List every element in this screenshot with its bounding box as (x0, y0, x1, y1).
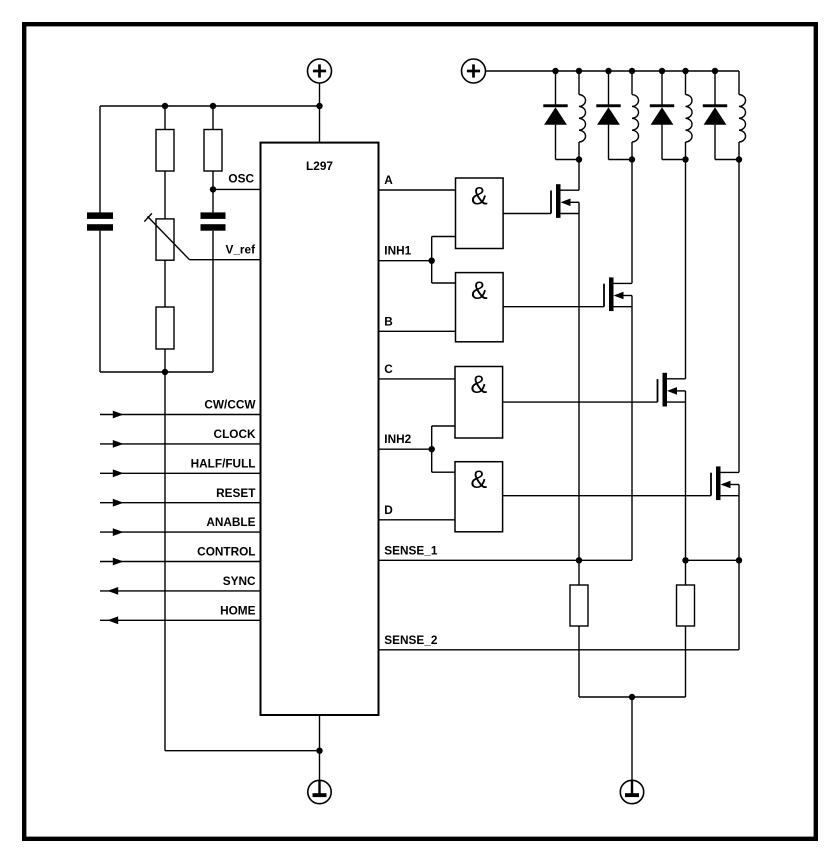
svg-text:A: A (384, 173, 393, 187)
node bus junction diode D3 (659, 68, 665, 74)
label V_ref (225, 243, 255, 257)
arrow output SYNC (108, 587, 119, 595)
wire input HOME (100, 619, 261, 621)
node bus junction winding L3 (682, 68, 688, 74)
transistor Q3 (658, 373, 686, 407)
label OSC (228, 172, 254, 186)
svg-text:ANABLE: ANABLE (206, 515, 255, 529)
diode D2 (596, 71, 632, 160)
wire sense resistors bottom (579, 696, 686, 698)
node bus junction diode D1 (552, 68, 558, 74)
wire Q2 source column (631, 296, 633, 561)
svg-text:D: D (384, 503, 393, 517)
node Q4 source / sense segment junction (736, 557, 742, 563)
label CLOCK (214, 427, 256, 441)
label ANABLE (206, 515, 255, 529)
wire R2 to OSC node (212, 171, 214, 212)
AND gate U4 symbol (470, 371, 487, 399)
label HALF/FULL (191, 456, 256, 470)
AND gate U3 body (456, 273, 504, 342)
svg-text:CW/CCW: CW/CCW (204, 398, 256, 412)
diode D3 (650, 71, 686, 160)
svg-text:&: & (470, 371, 487, 399)
svg-text:&: & (470, 466, 487, 494)
wire sense ground stem (631, 697, 633, 780)
wire pin A (379, 189, 456, 191)
node junction winding L1 bottom (576, 156, 582, 162)
resistor R2 (204, 130, 222, 172)
svg-text:INH2: INH2 (384, 432, 411, 446)
node junction winding L3 bottom (682, 156, 688, 162)
node bus junction winding L1 (576, 68, 582, 74)
node junction sense ground (629, 694, 635, 700)
inductor motor winding L1 (579, 71, 586, 160)
node junction ground stem (316, 748, 322, 754)
wire input HALF/FULL (100, 472, 261, 474)
wire pin INH1 (379, 260, 432, 262)
svg-text:C: C (384, 362, 393, 376)
svg-text:B: B (384, 314, 393, 328)
node junction winding L2 bottom (629, 156, 635, 162)
arrow input ANABLE (113, 528, 124, 536)
node junction V+ / L297 (316, 103, 322, 109)
inductor motor winding L3 (686, 71, 693, 160)
wire pin SENSE_2 (379, 649, 739, 651)
AND gate U4 body (455, 367, 503, 439)
wire Q1 drain column (578, 160, 580, 191)
wire R1 top lead (164, 106, 166, 130)
svg-text:CLOCK: CLOCK (214, 427, 256, 441)
arrow input CLOCK (113, 440, 124, 448)
wire input CONTROL (100, 561, 261, 563)
label CONTROL (197, 545, 255, 559)
ground GND1 (308, 780, 331, 803)
label SENSE_2 (384, 633, 438, 647)
svg-text:RESET: RESET (216, 486, 256, 500)
power supply V+ (right) (462, 59, 486, 83)
svg-text:L297: L297 (306, 159, 333, 173)
transistor Q4 (711, 466, 739, 500)
node junction R2 top (210, 103, 216, 109)
wire INH1 branch down (432, 261, 456, 283)
label INH1 (384, 244, 411, 258)
ground GND2 (620, 780, 643, 803)
IC U1 L297 body (261, 143, 379, 715)
wire top-left horizontal bus (100, 105, 320, 107)
svg-text:HOME: HOME (220, 603, 256, 617)
power supply V+ (left) (308, 59, 332, 83)
capacitor C2 (201, 212, 226, 230)
potentiometer RV1 wiper arrow (144, 213, 189, 259)
wire R4 bottom lead (578, 626, 580, 697)
wire Q3 drain column (685, 160, 687, 379)
resistor R1 (156, 130, 174, 172)
wire AND1 output (503, 213, 551, 215)
wire INH2 branch down (432, 449, 455, 472)
label SENSE_1 (384, 543, 438, 557)
transistor Q1 (551, 184, 579, 218)
label C (384, 362, 393, 376)
wire top-right bus (486, 70, 740, 72)
wire bottom-left horizontal (100, 371, 213, 373)
wire C2 bottom lead (212, 231, 214, 372)
wire pin SENSE_1 (379, 559, 632, 561)
wire R5 bottom lead (685, 626, 687, 697)
label HOME (220, 603, 256, 617)
resistor R5 sense (677, 585, 695, 626)
node bus junction winding L2 (629, 68, 635, 74)
wire left vertical bus (164, 372, 166, 751)
svg-text:&: & (471, 183, 488, 211)
wire L297 bottom stem (319, 715, 321, 780)
arrow input RESET (113, 499, 124, 507)
node INH1 branch junction (429, 258, 435, 264)
wire AND4 output (503, 495, 711, 497)
inductor motor winding L4 (739, 71, 746, 160)
arrow output HOME (108, 616, 119, 624)
wire AND2 output (503, 306, 604, 308)
label B (384, 314, 393, 328)
wire INH2 branch up (432, 426, 455, 449)
inductor motor winding L2 (632, 71, 639, 160)
node junction R1 top (162, 103, 168, 109)
svg-text:V_ref: V_ref (225, 243, 255, 257)
svg-text:SYNC: SYNC (223, 574, 256, 588)
wire pin B (379, 330, 456, 332)
label L297 (306, 159, 333, 173)
wire pin C (379, 378, 455, 380)
arrow input CW/CCW (113, 411, 124, 419)
AND gate U5 symbol (470, 466, 487, 494)
node junction bottom of divider (162, 369, 168, 375)
AND gate U3 symbol (471, 277, 488, 305)
wire OSC pin (213, 188, 261, 190)
AND gate U2 body (456, 178, 504, 249)
wire Q4 source column (738, 485, 740, 650)
label RESET (216, 486, 256, 500)
wire input CW/CCW (100, 414, 261, 416)
transistor Q2 (604, 277, 632, 311)
wire Q1 source column (578, 202, 580, 585)
wire input ANABLE (100, 531, 261, 533)
wire R1 to RV1 (164, 171, 166, 219)
label SYNC (223, 574, 256, 588)
wire pin INH2 (379, 448, 432, 450)
wire input RESET (100, 502, 261, 504)
label A (384, 173, 393, 187)
node OSC junction (210, 186, 216, 192)
wire bottom-left to ground (165, 750, 320, 752)
wire V+ stem to L297 top (319, 83, 321, 143)
wire V_ref pin (190, 259, 261, 261)
potentiometer RV1 body (156, 219, 174, 260)
svg-text:HALF/FULL: HALF/FULL (191, 456, 256, 470)
wire input CLOCK (100, 443, 261, 445)
wire input SYNC (100, 590, 261, 592)
wire RV1 to R3 (164, 260, 166, 307)
wire AND3 output (503, 401, 658, 403)
wire Q3 source column (685, 391, 687, 585)
diode D4 (703, 71, 739, 160)
wire sense segment L3-L4 (686, 559, 740, 561)
svg-text:INH1: INH1 (384, 244, 411, 258)
svg-text:SENSE_2: SENSE_2 (384, 633, 438, 647)
node SENSE_1 / R4 junction (576, 557, 582, 563)
node sense segment / R5 junction (682, 557, 688, 563)
wire Q2 drain column (631, 160, 633, 284)
svg-text:OSC: OSC (228, 172, 254, 186)
arrow input CONTROL (113, 558, 124, 566)
node bus junction diode D2 (605, 68, 611, 74)
wire INH1 branch up (432, 237, 456, 261)
svg-text:&: & (471, 277, 488, 305)
node bus junction diode D4 (712, 68, 718, 74)
node junction winding L4 bottom (736, 156, 742, 162)
wire left branch upper (99, 106, 101, 213)
diode D1 (543, 71, 579, 160)
label CW/CCW (204, 398, 256, 412)
wire R3 bottom lead (164, 349, 166, 372)
resistor R3 (156, 307, 174, 349)
node INH2 branch junction (429, 446, 435, 452)
label INH2 (384, 432, 411, 446)
wire Q4 drain column (738, 160, 740, 473)
AND gate U5 body (455, 462, 503, 532)
AND gate U2 symbol (471, 183, 488, 211)
label D (384, 503, 393, 517)
capacitor C1 (87, 212, 113, 230)
resistor R4 sense (570, 585, 588, 626)
wire R2 top lead (212, 106, 214, 130)
wire left branch lower (99, 231, 101, 372)
wire pin D (379, 519, 455, 521)
svg-text:CONTROL: CONTROL (197, 545, 255, 559)
arrow input HALF/FULL (113, 469, 124, 477)
svg-text:SENSE_1: SENSE_1 (384, 543, 438, 557)
